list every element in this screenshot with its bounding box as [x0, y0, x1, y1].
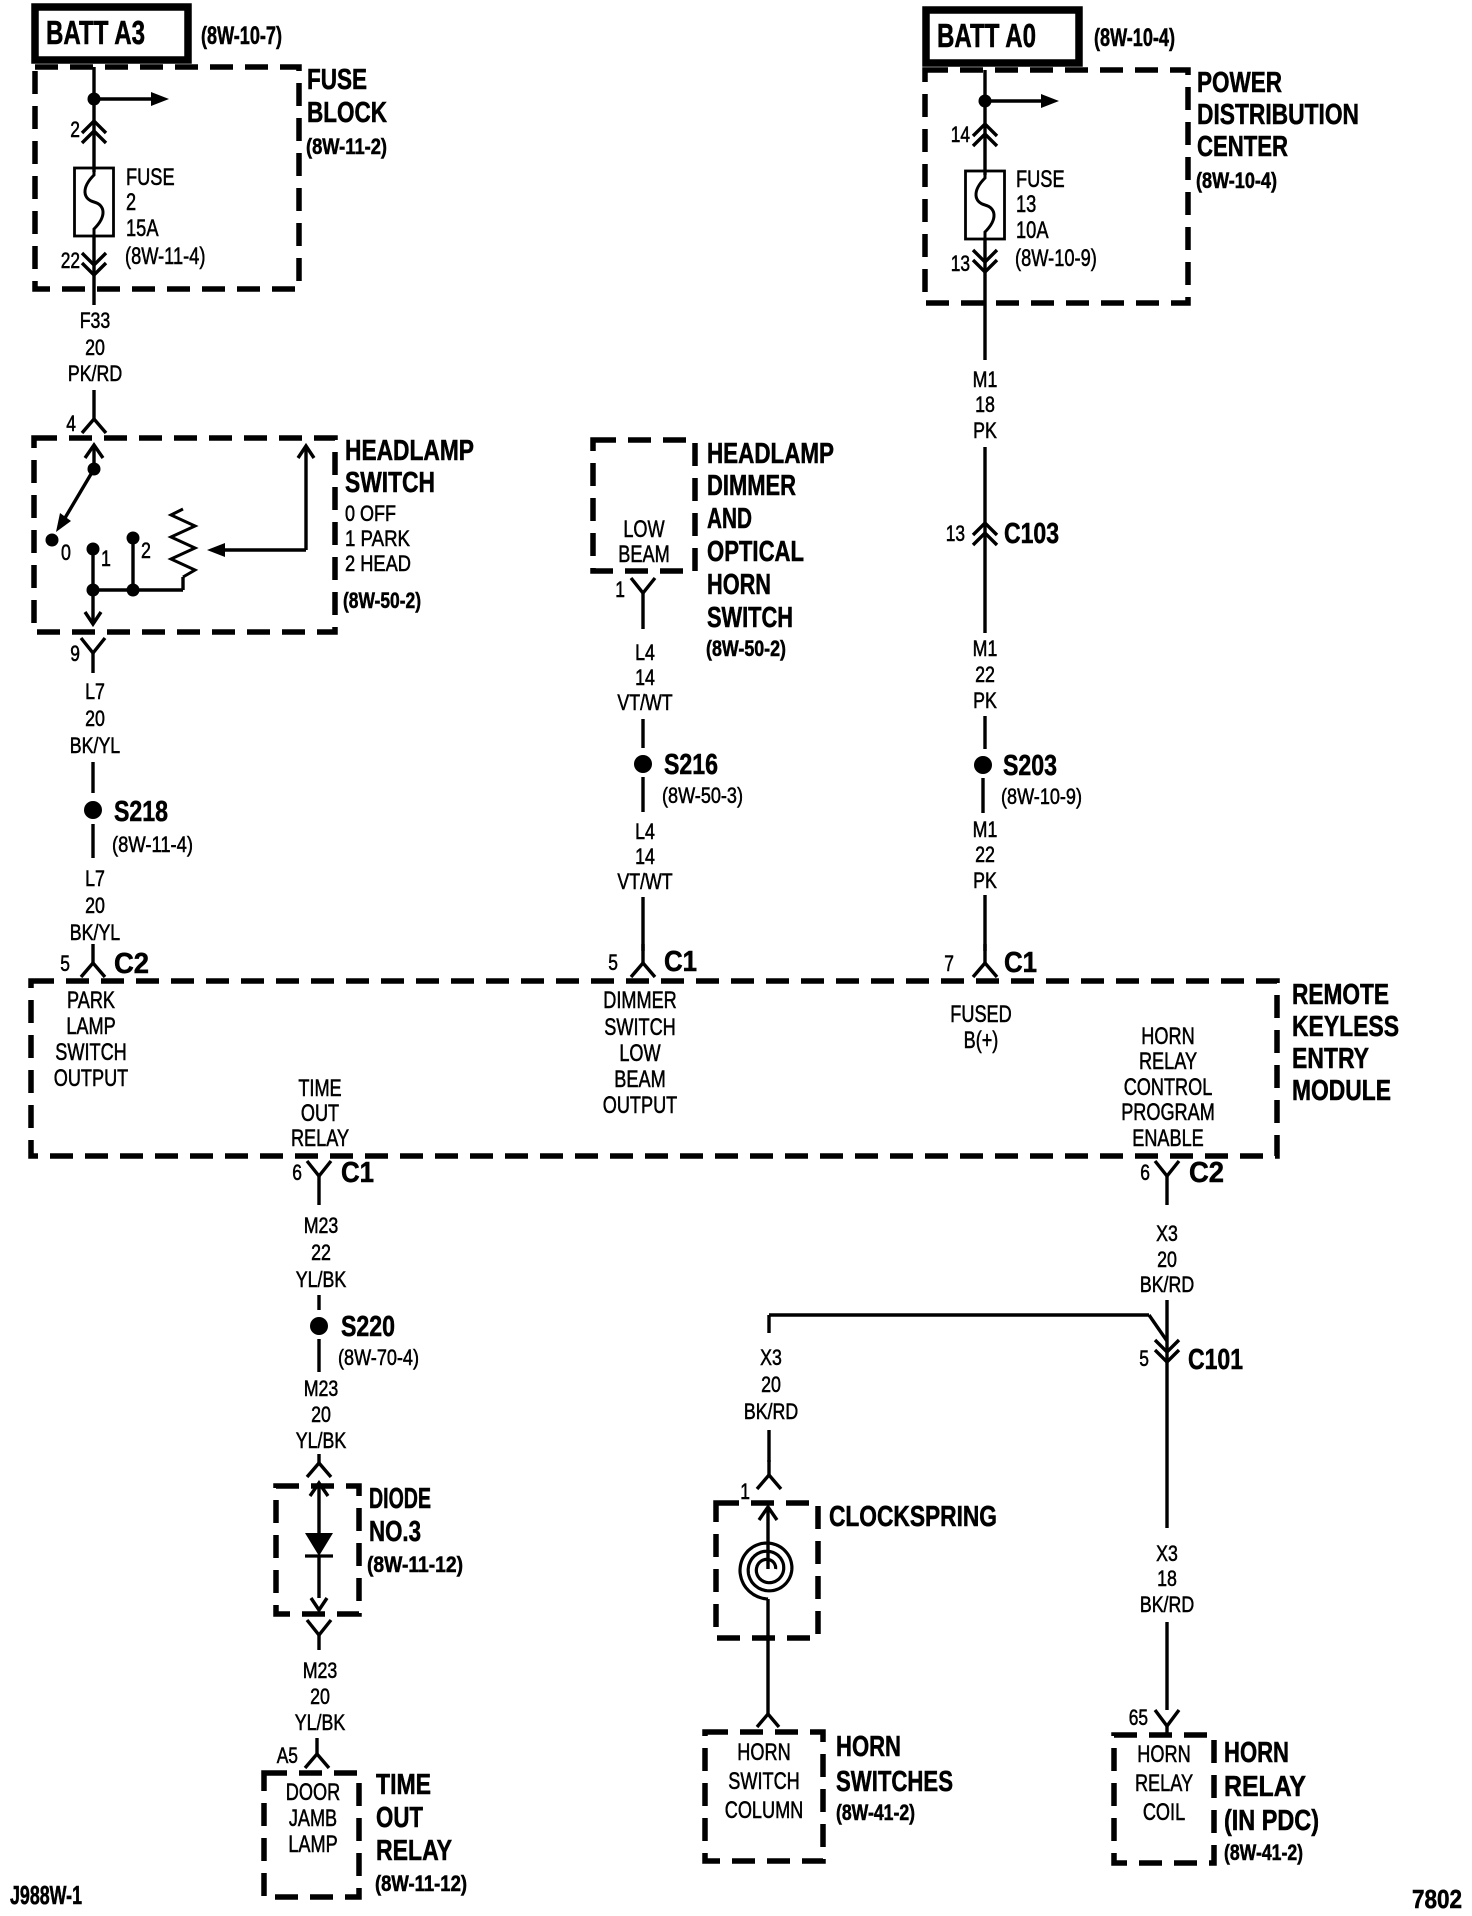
svg-text:1 PARK: 1 PARK [345, 526, 410, 551]
svg-text:VT/WT: VT/WT [617, 869, 673, 894]
svg-text:PK: PK [973, 688, 997, 713]
svg-text:(IN PDC): (IN PDC) [1224, 1805, 1319, 1837]
svg-text:(8W-50-3): (8W-50-3) [662, 783, 743, 808]
svg-text:RELAY: RELAY [1139, 1048, 1197, 1075]
svg-text:RELAY: RELAY [1224, 1771, 1306, 1803]
svg-text:13: 13 [951, 251, 970, 276]
svg-text:L7: L7 [85, 679, 105, 704]
svg-text:LOW: LOW [623, 516, 665, 543]
wire to headlamp switch [92, 390, 95, 412]
connector into horn switch column [757, 1714, 779, 1727]
svg-text:S218: S218 [114, 796, 168, 828]
contact 2 [127, 532, 140, 545]
wire to clockspring [767, 1430, 770, 1462]
diode no3 enclosure [276, 1486, 359, 1614]
svg-text:YL/BK: YL/BK [295, 1710, 345, 1735]
svg-text:TIME: TIME [298, 1075, 341, 1102]
svg-text:5: 5 [608, 950, 618, 975]
svg-text:FUSE: FUSE [1016, 166, 1065, 193]
svg-text:1: 1 [101, 546, 111, 571]
svg-text:(8W-10-7): (8W-10-7) [201, 22, 282, 50]
svg-text:BK/YL: BK/YL [70, 733, 120, 758]
svg-text:22: 22 [975, 662, 995, 687]
headlamp switch enclosure [34, 438, 335, 632]
svg-text:M1: M1 [973, 367, 998, 392]
connector 6 C1 [307, 1161, 331, 1176]
branch arrow A0 [985, 99, 1041, 102]
svg-text:0: 0 [61, 540, 71, 565]
svg-text:OUT: OUT [376, 1802, 423, 1834]
power distribution center enclosure [925, 70, 1188, 303]
svg-text:RELAY: RELAY [376, 1835, 452, 1867]
svg-text:SWITCH: SWITCH [604, 1014, 676, 1041]
svg-text:BEAM: BEAM [618, 541, 669, 568]
svg-text:M23: M23 [304, 1213, 339, 1238]
connector 6 C2 [1155, 1161, 1179, 1176]
svg-text:(8W-10-4): (8W-10-4) [1196, 168, 1277, 193]
svg-text:20: 20 [85, 335, 105, 360]
svg-text:HORN: HORN [1141, 1023, 1194, 1050]
svg-text:(8W-50-2): (8W-50-2) [343, 588, 421, 613]
diode D1 [305, 1533, 333, 1556]
svg-text:22: 22 [311, 1240, 331, 1265]
connector 5 C2 [91, 944, 94, 963]
splice S203 [974, 756, 992, 774]
svg-text:13: 13 [946, 521, 965, 546]
splice S220 [310, 1317, 328, 1335]
connector C101 [1155, 1340, 1179, 1352]
svg-text:LOW: LOW [619, 1040, 661, 1067]
wire batt A3 to fuse 2 [92, 67, 95, 172]
svg-text:PROGRAM: PROGRAM [1121, 1099, 1215, 1126]
svg-text:18: 18 [1157, 1566, 1177, 1591]
svg-text:(8W-50-2): (8W-50-2) [706, 636, 786, 661]
svg-text:CENTER: CENTER [1197, 131, 1288, 163]
wire from clockspring [766, 1599, 769, 1714]
svg-text:20: 20 [85, 893, 105, 918]
svg-text:OUT: OUT [301, 1100, 339, 1127]
svg-text:DISTRIBUTION: DISTRIBUTION [1197, 99, 1359, 131]
svg-text:LAMP: LAMP [66, 1013, 115, 1040]
svg-text:SWITCH: SWITCH [55, 1039, 127, 1066]
wire from C101 [1165, 1370, 1168, 1528]
svg-text:5: 5 [1139, 1346, 1149, 1371]
svg-text:HORN: HORN [1224, 1737, 1289, 1769]
horn switch column enclosure [705, 1732, 823, 1861]
svg-text:BEAM: BEAM [614, 1066, 665, 1093]
wire to module C1 [641, 897, 644, 951]
horn relay coil enclosure [1114, 1735, 1214, 1863]
contact 1 [87, 543, 100, 556]
diode output arrow [311, 1598, 327, 1610]
svg-text:(8W-11-4): (8W-11-4) [125, 243, 205, 270]
svg-text:JAMB: JAMB [289, 1805, 337, 1832]
connector pin 13 [983, 239, 986, 360]
svg-text:KEYLESS: KEYLESS [1292, 1011, 1399, 1043]
svg-text:FUSE: FUSE [126, 164, 175, 191]
svg-text:(8W-10-4): (8W-10-4) [1094, 24, 1175, 52]
wire from S203 [981, 778, 984, 813]
svg-text:BK/YL: BK/YL [70, 920, 120, 945]
branch wire to clockspring [769, 1313, 1149, 1316]
svg-text:SWITCH: SWITCH [728, 1768, 800, 1795]
svg-text:10A: 10A [1016, 217, 1049, 244]
svg-text:0 OFF: 0 OFF [345, 501, 396, 526]
svg-text:AND: AND [707, 503, 752, 535]
svg-text:(8W-11-12): (8W-11-12) [375, 1871, 467, 1896]
rheostat resistor [171, 509, 195, 577]
connector C103 [973, 523, 997, 535]
connector 7 C1 [983, 944, 986, 963]
clockspring enclosure [716, 1503, 818, 1638]
svg-text:FUSED: FUSED [950, 1001, 1011, 1028]
svg-text:4: 4 [66, 411, 76, 436]
svg-text:HEADLAMP: HEADLAMP [707, 438, 834, 470]
svg-text:X3: X3 [1156, 1541, 1178, 1566]
svg-text:(8W-70-4): (8W-70-4) [338, 1345, 419, 1370]
svg-text:PK: PK [973, 868, 997, 893]
svg-text:SWITCHES: SWITCHES [836, 1766, 953, 1798]
svg-text:HORN: HORN [737, 1739, 790, 1766]
svg-text:F33: F33 [80, 308, 111, 333]
svg-text:2: 2 [70, 117, 80, 142]
svg-text:X3: X3 [1156, 1221, 1178, 1246]
wire to S203 [983, 716, 986, 749]
svg-text:A5: A5 [277, 1743, 298, 1768]
switch output arrow [91, 590, 94, 624]
connector A5 [315, 1738, 318, 1754]
svg-text:22: 22 [61, 248, 80, 273]
svg-text:POWER: POWER [1197, 67, 1282, 99]
wire to C103 [983, 447, 986, 633]
junction dot [88, 93, 101, 106]
node BATT A0 feed box [926, 10, 1079, 63]
svg-text:14: 14 [635, 665, 655, 690]
wire from S216 [641, 777, 644, 812]
svg-text:2: 2 [141, 538, 151, 563]
svg-text:HORN: HORN [707, 569, 771, 601]
connector below diode [307, 1620, 331, 1635]
wire batt A0 to fuse 13 [983, 70, 986, 175]
svg-text:(8W-11-4): (8W-11-4) [112, 832, 193, 857]
connector pin 2 [82, 121, 106, 133]
svg-text:VT/WT: VT/WT [617, 690, 673, 715]
svg-text:BATT A0: BATT A0 [937, 17, 1036, 54]
svg-text:PK: PK [973, 418, 997, 443]
contact 0 [46, 534, 59, 547]
svg-text:RELAY: RELAY [291, 1125, 349, 1152]
svg-text:(8W-11-2): (8W-11-2) [306, 134, 387, 159]
branch arrow [94, 97, 151, 100]
svg-text:M23: M23 [304, 1376, 339, 1401]
wire from S218 [91, 824, 94, 858]
svg-text:RELAY: RELAY [1135, 1770, 1193, 1797]
svg-text:BK/RD: BK/RD [744, 1399, 798, 1424]
svg-text:C1: C1 [341, 1157, 374, 1189]
svg-text:(8W-41-2): (8W-41-2) [1224, 1840, 1303, 1865]
fuse block enclosure [35, 67, 299, 289]
svg-text:20: 20 [310, 1684, 330, 1709]
svg-text:2 HEAD: 2 HEAD [345, 551, 411, 576]
connector pin 1 low beam [631, 578, 655, 593]
svg-text:FUSE: FUSE [307, 64, 367, 96]
wire from S220 [317, 1339, 320, 1372]
svg-text:7802: 7802 [1412, 1884, 1462, 1914]
connector pin 14 [973, 124, 997, 136]
svg-text:PARK: PARK [67, 987, 115, 1014]
svg-text:5: 5 [60, 951, 70, 976]
connector pin 1 clockspring [767, 1460, 770, 1475]
wire X3 to C101 junction [1165, 1300, 1168, 1370]
svg-text:J988W-1: J988W-1 [10, 1880, 82, 1910]
clockspring coil spiral [740, 1543, 792, 1599]
svg-text:20: 20 [761, 1372, 781, 1397]
svg-text:2: 2 [126, 189, 136, 216]
svg-text:HEADLAMP: HEADLAMP [345, 435, 474, 467]
svg-text:7: 7 [944, 951, 954, 976]
wire to horn relay coil [1165, 1622, 1168, 1710]
svg-text:YL/BK: YL/BK [296, 1428, 346, 1453]
splice S216 [634, 755, 652, 773]
svg-text:BLOCK: BLOCK [307, 97, 387, 129]
svg-text:65: 65 [1129, 1705, 1148, 1730]
svg-text:SWITCH: SWITCH [345, 467, 435, 499]
fuse 13 10A [966, 171, 1005, 239]
svg-text:18: 18 [975, 392, 995, 417]
connector pin 22 [92, 236, 95, 305]
fuse 2 15A [75, 168, 114, 236]
wire to module C1 pin 7 [983, 895, 986, 951]
low beam switch enclosure [593, 440, 695, 571]
svg-text:9: 9 [70, 641, 80, 666]
svg-text:22: 22 [975, 842, 995, 867]
svg-text:BK/RD: BK/RD [1140, 1272, 1194, 1297]
svg-text:S220: S220 [341, 1311, 395, 1343]
svg-text:COLUMN: COLUMN [725, 1797, 804, 1824]
svg-text:15A: 15A [126, 215, 159, 242]
clockspring input arrow [766, 1507, 769, 1569]
switch wiper [62, 469, 94, 523]
svg-text:14: 14 [635, 844, 655, 869]
svg-text:DIODE: DIODE [369, 1483, 431, 1515]
svg-text:M1: M1 [973, 817, 998, 842]
svg-text:1: 1 [740, 1479, 750, 1504]
junction dot A0 [979, 95, 992, 108]
connector into diode box [317, 1454, 320, 1463]
svg-text:HORN: HORN [836, 1731, 901, 1763]
svg-text:L7: L7 [85, 866, 105, 891]
svg-text:C2: C2 [1189, 1157, 1224, 1189]
svg-text:S203: S203 [1003, 750, 1057, 782]
svg-text:YL/BK: YL/BK [296, 1267, 346, 1292]
svg-text:C103: C103 [1004, 518, 1059, 550]
time out relay enclosure [264, 1773, 359, 1897]
diode input arrow [317, 1483, 320, 1533]
svg-text:1: 1 [615, 577, 625, 602]
svg-text:COIL: COIL [1143, 1799, 1185, 1826]
svg-text:SWITCH: SWITCH [707, 602, 793, 634]
svg-text:M1: M1 [973, 636, 998, 661]
svg-text:DOOR: DOOR [286, 1779, 340, 1806]
svg-text:MODULE: MODULE [1292, 1075, 1391, 1107]
connector pin 4 [92, 412, 95, 419]
svg-text:DIMMER: DIMMER [603, 987, 677, 1014]
svg-text:BK/RD: BK/RD [1140, 1592, 1194, 1617]
svg-text:L4: L4 [635, 640, 655, 665]
svg-text:CONTROL: CONTROL [1124, 1074, 1213, 1101]
svg-text:CLOCKSPRING: CLOCKSPRING [829, 1501, 997, 1533]
remote keyless entry module enclosure [31, 981, 1277, 1156]
splice S218 [84, 801, 102, 819]
svg-text:ENABLE: ENABLE [1132, 1125, 1204, 1152]
connector 5 C1 [641, 944, 644, 963]
connector pin 9 [81, 638, 105, 653]
svg-text:14: 14 [951, 122, 970, 147]
svg-text:20: 20 [85, 706, 105, 731]
wire to S216 [641, 719, 644, 748]
svg-text:HORN: HORN [1137, 1741, 1190, 1768]
svg-text:PK/RD: PK/RD [68, 361, 122, 386]
svg-text:13: 13 [1016, 191, 1036, 218]
svg-text:OUTPUT: OUTPUT [54, 1065, 129, 1092]
svg-text:L4: L4 [635, 819, 655, 844]
svg-text:20: 20 [311, 1402, 331, 1427]
svg-text:C2: C2 [114, 948, 149, 980]
svg-text:(8W-10-9): (8W-10-9) [1015, 245, 1097, 272]
svg-text:M23: M23 [303, 1658, 338, 1683]
svg-text:6: 6 [292, 1160, 302, 1185]
svg-text:C101: C101 [1188, 1344, 1243, 1376]
switch common node [88, 463, 101, 476]
wire to S218 [91, 762, 94, 793]
svg-text:(8W-11-12): (8W-11-12) [367, 1552, 463, 1577]
svg-text:C1: C1 [1004, 947, 1037, 979]
svg-text:B(+): B(+) [964, 1027, 999, 1054]
svg-text:(8W-10-9): (8W-10-9) [1001, 784, 1082, 809]
svg-text:TIME: TIME [376, 1769, 431, 1801]
switch output bus [91, 549, 94, 590]
svg-text:OPTICAL: OPTICAL [707, 536, 804, 568]
svg-text:S216: S216 [664, 749, 718, 781]
svg-text:C1: C1 [664, 946, 697, 978]
svg-text:X3: X3 [760, 1345, 782, 1370]
svg-text:(8W-41-2): (8W-41-2) [836, 1800, 915, 1825]
svg-text:LAMP: LAMP [288, 1831, 337, 1858]
switch input arrow [92, 445, 95, 469]
svg-text:6: 6 [1140, 1160, 1150, 1185]
svg-text:ENTRY: ENTRY [1292, 1043, 1369, 1075]
svg-text:NO.3: NO.3 [369, 1516, 421, 1548]
svg-text:20: 20 [1157, 1247, 1177, 1272]
svg-text:DIMMER: DIMMER [707, 470, 796, 502]
svg-text:BATT A3: BATT A3 [46, 14, 145, 51]
svg-text:REMOTE: REMOTE [1292, 979, 1389, 1011]
svg-text:OUTPUT: OUTPUT [603, 1092, 678, 1119]
wire to S220 [317, 1295, 320, 1310]
rheostat control arrow [215, 548, 306, 551]
node BATT A3 feed box [35, 7, 188, 60]
